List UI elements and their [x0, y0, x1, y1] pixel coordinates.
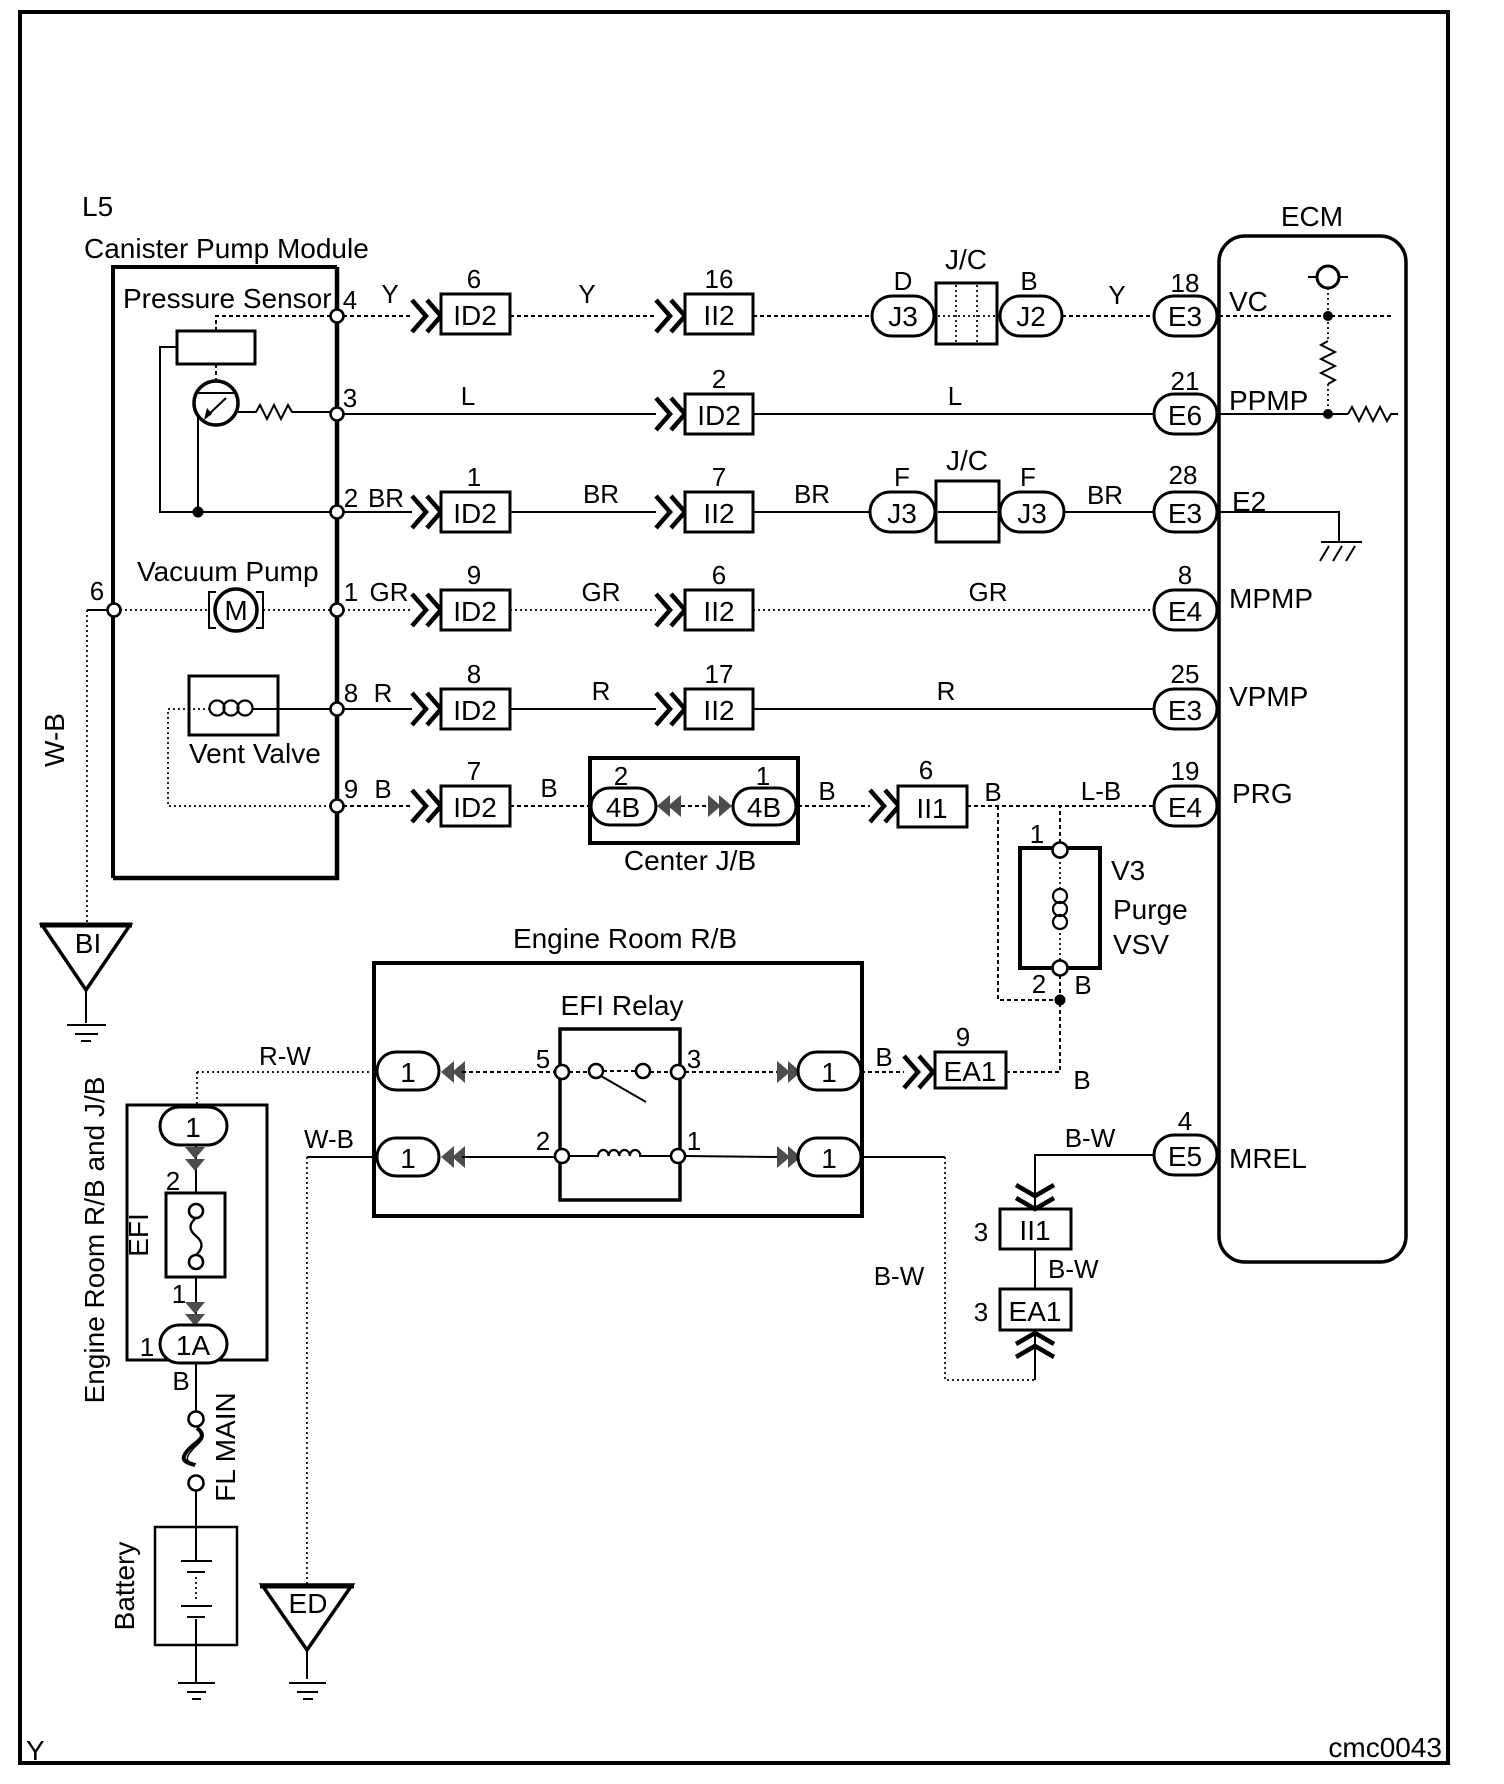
connector chevron row5-b [656, 693, 685, 725]
wire Y pin4 to ID2 (dashed) [343, 315, 412, 317]
wire W-B pill to pin2 [462, 1156, 555, 1158]
VSV coil wire (dotted) [1059, 857, 1061, 961]
relay pin 1 [671, 1149, 685, 1163]
connector II2 pin17 row5 [685, 689, 753, 729]
wire pin5 to contact (dashed) [569, 1071, 589, 1073]
wire L pin3 to ID2 [343, 413, 656, 415]
shaded arrow top-left R/B [441, 1061, 454, 1083]
wire contact to contact (dashed) [603, 1070, 636, 1072]
connector E6 pin21 row2 [1154, 394, 1217, 434]
VSV pin 1 node [1053, 843, 1068, 858]
svg-text:6: 6 [90, 576, 104, 606]
connector II1 pin3 [1000, 1209, 1071, 1249]
wire R-W pill to pin5 (dashed) [462, 1071, 555, 1073]
wire pin3 to contact (dashed) [650, 1071, 671, 1073]
svg-text:EFI: EFI [123, 1213, 154, 1257]
svg-text:Y: Y [381, 279, 398, 309]
svg-text:1: 1 [172, 1279, 186, 1309]
resistor inside pressure sensor [238, 405, 337, 419]
pressure transducer circle [194, 381, 238, 425]
svg-text:21: 21 [1171, 366, 1200, 396]
ground battery [178, 1682, 215, 1684]
svg-text:7: 7 [712, 462, 726, 492]
chassis ground E2 [1321, 541, 1362, 543]
svg-text:19: 19 [1171, 756, 1200, 786]
svg-text:E3: E3 [1168, 301, 1202, 332]
svg-text:F: F [1020, 462, 1036, 492]
wire W-B pin6 down to BI (dotted) [86, 610, 88, 925]
svg-text:MREL: MREL [1229, 1143, 1307, 1174]
vacuum pump motor M [215, 589, 257, 631]
svg-text:Center J/B: Center J/B [624, 845, 756, 876]
svg-text:J/C: J/C [946, 445, 988, 476]
battery cell plates [181, 1560, 212, 1562]
connector 4B pin2 [591, 788, 656, 825]
svg-text:2: 2 [712, 364, 726, 394]
svg-text:1: 1 [140, 1332, 154, 1362]
svg-text:VPMP: VPMP [1229, 681, 1308, 712]
connector chevron row5-a [412, 693, 441, 725]
wire B-W up into EA1 [1034, 1330, 1036, 1380]
svg-text:GR: GR [582, 577, 621, 607]
node pin8 [331, 703, 344, 716]
svg-text:8: 8 [467, 659, 481, 689]
vent valve coil [210, 701, 225, 716]
wire VSV pin2 down (dashed) [1059, 975, 1061, 1073]
connector II2 pin7 row3 [685, 492, 753, 532]
svg-text:B: B [374, 774, 391, 804]
connector chevron row4-b [656, 594, 685, 626]
svg-text:8: 8 [344, 678, 358, 708]
svg-text:D: D [894, 266, 913, 296]
svg-text:3: 3 [974, 1297, 988, 1327]
fusible link FL MAIN [189, 1412, 204, 1427]
connector chevron up below EA1 [1016, 1333, 1054, 1357]
svg-text:GR: GR [370, 577, 409, 607]
svg-text:6: 6 [919, 755, 933, 785]
wire R ID2 to II2 [510, 708, 656, 710]
svg-text:Y: Y [1108, 280, 1125, 310]
wire sensor top to pin4 (dashed) [216, 316, 337, 331]
svg-text:28: 28 [1169, 460, 1198, 490]
svg-text:1: 1 [467, 462, 481, 492]
wire L-B VSV pin1 up to PRG rail (dashed) [1059, 806, 1061, 850]
wire PPMP rail inside ECM [1219, 413, 1348, 415]
wire battery to ground [195, 1619, 197, 1682]
wire Y J2 to E3 (dashed) [1062, 315, 1154, 317]
connector chevron row1-b [656, 300, 685, 332]
wire GR ID2 to II2 (dotted) [510, 609, 656, 611]
node pin1 [331, 604, 344, 617]
svg-text:VC: VC [1229, 286, 1268, 317]
shaded arrow bottom-left R/B [441, 1146, 454, 1168]
svg-text:VSV: VSV [1113, 929, 1169, 960]
wire relay out to B-W net [861, 1156, 945, 1158]
svg-text:EA1: EA1 [944, 1056, 997, 1087]
svg-text:EFI Relay: EFI Relay [561, 990, 684, 1021]
svg-text:3: 3 [974, 1217, 988, 1247]
svg-text:Engine Room R/B: Engine Room R/B [513, 923, 737, 954]
connector II2 pin6 row4 [685, 590, 753, 630]
svg-text:J3: J3 [888, 301, 918, 332]
node pin9 [331, 800, 344, 813]
svg-text:4B: 4B [747, 792, 781, 823]
connector chevron row1-a [412, 300, 441, 332]
svg-text:9: 9 [467, 560, 481, 590]
svg-text:II2: II2 [703, 695, 734, 726]
svg-text:cmc0043: cmc0043 [1328, 1732, 1442, 1763]
svg-text:2: 2 [614, 761, 628, 791]
svg-text:4B: 4B [606, 792, 640, 823]
relay switch blade [601, 1076, 646, 1102]
wire Y II2 to J3 (dashed) [753, 315, 872, 317]
wire coil to pin1 [639, 1155, 671, 1157]
svg-text:Engine Room R/B and J/B: Engine Room R/B and J/B [79, 1077, 110, 1404]
wire sensor bottom to transducer (dashed) [215, 364, 217, 382]
connector pill 1 top-right R/B [798, 1052, 861, 1090]
svg-text:1: 1 [185, 1112, 201, 1143]
svg-text:E4: E4 [1168, 596, 1202, 627]
shaded arrow right (center J/B) [708, 795, 721, 817]
svg-text:MPMP: MPMP [1229, 583, 1313, 614]
wire EA1 to B junction (dashed) [1006, 1071, 1060, 1073]
svg-text:II2: II2 [703, 596, 734, 627]
svg-text:E3: E3 [1168, 695, 1202, 726]
svg-text:2: 2 [344, 483, 358, 513]
wire B 1A to FL MAIN [195, 1363, 197, 1412]
svg-text:Purge: Purge [1113, 894, 1188, 925]
connector chevron down above II1 [1016, 1185, 1054, 1209]
svg-text:J3: J3 [887, 498, 917, 529]
junction dot VC [1323, 311, 1333, 321]
wire B-W down-run (dotted) [945, 1157, 1035, 1380]
connector chevron EA1 [904, 1056, 933, 1088]
svg-text:R: R [592, 676, 611, 706]
wire B pin9 to ID2 (dashed) [343, 805, 412, 807]
svg-text:1: 1 [821, 1057, 837, 1088]
canister pump module box L5 [113, 267, 337, 878]
wire L ID2 to E6 [753, 413, 1154, 415]
transducer chord line [197, 392, 235, 394]
connector ID2 pin1 row3 [441, 492, 510, 532]
svg-text:J/C: J/C [945, 244, 987, 275]
svg-text:PPMP: PPMP [1229, 385, 1308, 416]
wire R-W into R/B [197, 1071, 377, 1073]
svg-text:L: L [461, 381, 475, 411]
svg-text:ID2: ID2 [453, 695, 497, 726]
connector E3 pin28 row3 [1154, 492, 1217, 532]
V3 purge VSV box [1020, 848, 1100, 968]
svg-text:R: R [374, 678, 393, 708]
wire pill to EFI fuse [195, 1145, 197, 1193]
svg-text:BR: BR [583, 479, 619, 509]
wire B Center J/B to II1 (dashed) [798, 805, 870, 807]
connector E4 pin19 row6 [1154, 786, 1217, 826]
svg-text:Vent Valve: Vent Valve [189, 738, 321, 769]
connector pill 1 bottom-right R/B [798, 1138, 861, 1176]
connector J3 pin D row1 [872, 296, 934, 336]
wire VC dot to resistor (dotted) [1327, 322, 1329, 341]
Engine Room R/B box [374, 963, 862, 1216]
svg-text:4: 4 [343, 285, 357, 315]
svg-text:Y: Y [26, 1735, 45, 1766]
svg-text:B: B [875, 1042, 892, 1072]
wire B-W EA1 to II1 [1034, 1249, 1036, 1289]
transducer arrow [207, 398, 226, 416]
connector ID2 pin8 row5 [441, 689, 510, 729]
wire resistor to PPMP dot (dotted) [1327, 384, 1329, 414]
wire vent valve left loop to pin9 (dotted) [168, 709, 337, 806]
connector pill 1 bottom-left R/B [377, 1138, 439, 1176]
wire GR pin1 to ID2 (dotted) [343, 609, 412, 611]
vent valve box [189, 676, 278, 735]
connector E3 pin25 row5 [1154, 689, 1217, 729]
svg-text:B: B [172, 1366, 189, 1396]
svg-text:ID2: ID2 [453, 792, 497, 823]
connector chevron row6-b [870, 790, 899, 822]
junction dot sensor ground [193, 507, 204, 518]
motor bracket right [256, 592, 263, 628]
svg-text:6: 6 [712, 560, 726, 590]
wire B/L-B II1 to E4 (dashed) [967, 805, 1154, 807]
svg-text:18: 18 [1171, 268, 1200, 298]
svg-text:E5: E5 [1168, 1141, 1202, 1172]
wire E2 to ground inside ECM [1219, 512, 1339, 543]
svg-text:ED: ED [289, 1588, 328, 1619]
connector pill 1 top-left R/B [377, 1052, 439, 1090]
shaded arrow down J/B upper [185, 1147, 205, 1159]
svg-text:2: 2 [1032, 969, 1046, 999]
relay pin 5 [555, 1065, 569, 1079]
relay pin 3 [671, 1065, 685, 1079]
svg-text:9: 9 [956, 1022, 970, 1052]
svg-text:B: B [818, 776, 835, 806]
wire vent valve right to pin8 [252, 708, 337, 710]
svg-text:L-B: L-B [1081, 776, 1121, 806]
wire B II1 branch down to junction (dashed) [998, 806, 1060, 1000]
svg-text:ID2: ID2 [453, 300, 497, 331]
wire GR II2 to E4 (dotted) [753, 609, 1154, 611]
svg-text:B: B [540, 773, 557, 803]
connector ID2 pin9 row4 [441, 590, 510, 630]
wire W-B relay to ED (dotted) [306, 1157, 308, 1585]
svg-text:Pressure Sensor: Pressure Sensor [123, 283, 332, 314]
wire R-W down to J/B pill [196, 1072, 198, 1107]
wire power to VC rail (dotted) [1327, 288, 1329, 316]
svg-text:E4: E4 [1168, 792, 1202, 823]
relay switch contact circles [589, 1064, 603, 1078]
connector E3 pin18 row1 [1154, 296, 1217, 336]
svg-text:II1: II1 [1019, 1215, 1050, 1246]
wire BR ID2 to II2 [510, 511, 656, 513]
connector pill 1A pin1 [160, 1325, 227, 1363]
connector chevron row6-a [412, 790, 441, 822]
node pin2 [331, 506, 344, 519]
svg-text:M: M [224, 595, 247, 626]
svg-text:BR: BR [368, 483, 404, 513]
wire motor row (dotted) [115, 609, 337, 611]
connector chevron row3-a [412, 496, 441, 528]
svg-text:R: R [937, 676, 956, 706]
wire FL MAIN to battery [195, 1490, 197, 1560]
svg-text:1A: 1A [176, 1330, 211, 1361]
wire II1 up to E5 [1035, 1155, 1154, 1209]
connector II2 pin16 row1 [685, 294, 753, 334]
Engine Room R/B and J/B box [127, 1105, 267, 1360]
wire B ID2 to Center J/B (dashed) [510, 805, 591, 807]
svg-text:8: 8 [1178, 560, 1192, 590]
svg-text:R-W: R-W [259, 1041, 311, 1071]
connector chevron row2 [656, 398, 685, 430]
shaded arrow left (center J/B) [657, 795, 670, 817]
svg-text:3: 3 [343, 383, 357, 413]
svg-text:1: 1 [400, 1143, 416, 1174]
svg-text:4: 4 [1178, 1106, 1192, 1136]
svg-text:L5: L5 [82, 191, 113, 222]
power supply symbol (circle-bar) [1308, 276, 1348, 278]
svg-text:F: F [894, 462, 910, 492]
series resistor inside ECM (horizontal) [1348, 407, 1398, 421]
svg-text:EA1: EA1 [1009, 1296, 1062, 1327]
svg-text:5: 5 [536, 1044, 550, 1074]
svg-text:1: 1 [821, 1143, 837, 1174]
connector ID2 pin7 row6 [441, 786, 510, 826]
svg-text:ID2: ID2 [453, 596, 497, 627]
fuse EFI element [189, 1204, 203, 1218]
connector chevron row3-b [656, 496, 685, 528]
svg-text:Battery: Battery [109, 1542, 140, 1631]
svg-text:B-W: B-W [1048, 1254, 1099, 1284]
connector E4 pin8 row4 [1154, 590, 1217, 630]
connector J2 pin B row1 [1000, 296, 1062, 336]
junction connector J/C row1 [936, 283, 997, 344]
connector J3 pin F row3 right [1000, 492, 1064, 532]
wire pin2 to coil [569, 1155, 599, 1157]
wire fuse to 1A pill [195, 1277, 197, 1325]
wire pin1 to arrow [685, 1156, 777, 1157]
svg-text:16: 16 [705, 264, 734, 294]
wire R pin8 to ID2 [343, 708, 412, 710]
svg-text:GR: GR [969, 577, 1008, 607]
shaded arrow top-right R/B [777, 1061, 790, 1083]
svg-text:L: L [948, 381, 962, 411]
svg-text:BR: BR [794, 479, 830, 509]
wire BR J3 to E3 [1064, 511, 1154, 513]
svg-text:9: 9 [344, 774, 358, 804]
ground BI [67, 1024, 106, 1026]
wire transducer to ground net [197, 416, 199, 512]
wire ED to ground [306, 1650, 308, 1679]
VSV solenoid coil [1053, 889, 1067, 903]
motor bracket left [209, 592, 216, 628]
ECM box [1219, 236, 1406, 1262]
svg-text:B: B [1074, 970, 1091, 1000]
wire BR II2 to J3 [753, 511, 870, 513]
wire pin6 to W-B net [87, 609, 114, 611]
svg-text:6: 6 [467, 264, 481, 294]
wire between 4B pills (dashed) [681, 805, 708, 807]
connector E5 pin4 [1154, 1135, 1217, 1175]
wire pin3 to arrow (dashed) [685, 1071, 777, 1073]
svg-text:1: 1 [400, 1057, 416, 1088]
svg-text:BR: BR [1087, 480, 1123, 510]
svg-text:1: 1 [756, 761, 770, 791]
wire BR pin2 to ID2 [343, 511, 412, 513]
svg-text:V3: V3 [1111, 855, 1145, 886]
svg-text:Vacuum Pump: Vacuum Pump [137, 556, 319, 587]
wire sensor left branch [160, 347, 337, 512]
svg-text:B: B [984, 777, 1001, 807]
svg-text:Canister Pump Module: Canister Pump Module [84, 233, 369, 264]
junction connector J/C row3 [936, 481, 999, 542]
shaded arrow down J/B lower [185, 1302, 205, 1314]
svg-text:ID2: ID2 [453, 498, 497, 529]
ground triangle ED [262, 1585, 352, 1650]
battery box [155, 1527, 237, 1645]
wire BI to ground [85, 990, 87, 1023]
relay pin 2 [555, 1149, 569, 1163]
svg-text:BI: BI [75, 928, 101, 959]
connector EA1 pin9 [935, 1052, 1006, 1088]
svg-text:J3: J3 [1017, 498, 1047, 529]
svg-text:W-B: W-B [39, 713, 70, 767]
svg-text:J2: J2 [1016, 301, 1046, 332]
svg-text:25: 25 [1171, 659, 1200, 689]
svg-text:B-W: B-W [1065, 1123, 1116, 1153]
svg-text:II1: II1 [916, 793, 947, 824]
svg-text:1: 1 [687, 1126, 701, 1156]
connector 4B pin1 [733, 788, 796, 825]
relay coil [598, 1150, 640, 1156]
junction dot B net [1055, 995, 1066, 1006]
svg-text:FL MAIN: FL MAIN [210, 1392, 241, 1501]
pressure sensor element box [177, 331, 255, 364]
svg-text:7: 7 [467, 756, 481, 786]
junction dot PPMP [1323, 409, 1333, 419]
svg-text:B: B [1020, 266, 1037, 296]
svg-text:B-W: B-W [874, 1261, 925, 1291]
svg-text:Y: Y [578, 279, 595, 309]
svg-text:W-B: W-B [304, 1124, 354, 1154]
svg-text:E6: E6 [1168, 400, 1202, 431]
node pin3 [331, 408, 344, 421]
svg-text:3: 3 [687, 1044, 701, 1074]
svg-text:ECM: ECM [1281, 201, 1343, 232]
connector pill 1 J/B top [160, 1107, 227, 1145]
wire Y ID2 to II2 (dashed) [510, 315, 656, 317]
svg-text:II2: II2 [703, 498, 734, 529]
Center J/B box [590, 758, 798, 843]
wire B EA1 row to junction (dashed) [861, 1071, 904, 1073]
wire VC rail inside ECM (dashed) [1219, 315, 1392, 317]
svg-text:B: B [1073, 1065, 1090, 1095]
svg-text:II2: II2 [703, 300, 734, 331]
svg-text:17: 17 [705, 659, 734, 689]
connector ID2 pin2 row2 [685, 394, 753, 434]
node pin4 [331, 310, 344, 323]
wire R II2 to E3 [753, 708, 1154, 710]
connector ID2 pin6 row1 [441, 294, 510, 334]
connector chevron row4-a [412, 594, 441, 626]
ground ED [289, 1682, 326, 1684]
EFI relay box [560, 1029, 680, 1200]
connector II1 pin6 row6 [898, 786, 967, 827]
connector J3 pin F row3 left [870, 492, 935, 532]
svg-text:1: 1 [344, 577, 358, 607]
wire W-B into R/B [307, 1156, 377, 1158]
fuse EFI box [166, 1193, 225, 1277]
svg-text:1: 1 [1030, 819, 1044, 849]
